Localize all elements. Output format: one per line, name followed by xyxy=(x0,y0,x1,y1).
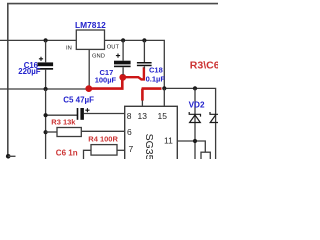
op-amp U? regulator LM7812 box xyxy=(66,20,120,60)
svg-text:R4 100R: R4 100R xyxy=(88,134,118,143)
wire pin15 stub xyxy=(163,88,165,106)
node C16 bottom junction xyxy=(44,87,48,91)
wire ground rail y=89 left part xyxy=(0,88,87,90)
svg-text:SG3525: SG3525 xyxy=(143,134,155,159)
border frame top/left xyxy=(8,4,218,156)
svg-text:OUT: OUT xyxy=(107,45,120,51)
svg-text:0.1µF: 0.1µF xyxy=(146,74,166,83)
capacitor C17 100uF xyxy=(95,40,131,84)
node pin15 junction xyxy=(162,86,166,90)
wire main top rail y=40.4 with right drop xyxy=(0,40,164,88)
svg-text:R3 13k: R3 13k xyxy=(51,118,76,127)
node bottom-left junction xyxy=(6,154,11,159)
svg-text:6: 6 xyxy=(127,127,132,137)
svg-text:C5 47µF: C5 47µF xyxy=(63,95,94,104)
svg-text:13: 13 xyxy=(138,111,148,121)
op-amp U1 SG3525 box xyxy=(125,106,178,172)
resistor R3 13k xyxy=(46,118,125,137)
wire pin 11 to resistor at bottom right xyxy=(177,141,205,152)
wire highlighted segment to pin 13 (red) xyxy=(142,89,162,101)
wire right section of mid rail y=88.4 with right drop xyxy=(164,88,215,112)
svg-text:7: 7 xyxy=(129,144,134,154)
node pin11/VD2 junction xyxy=(193,139,197,143)
node C18 tap xyxy=(142,38,146,42)
svg-text:R3\C6: R3\C6 xyxy=(190,59,218,71)
node R3 tap xyxy=(44,130,48,134)
wire left rail to C5 xyxy=(46,114,77,116)
svg-text:15: 15 xyxy=(158,111,168,121)
capacitor C5 47uF xyxy=(63,95,94,119)
wire LM7812 GND pin down xyxy=(88,49,90,86)
wire C5 to pin 8 xyxy=(84,113,125,115)
svg-text:C6 1n: C6 1n xyxy=(56,148,78,157)
node C16 tap xyxy=(44,38,48,42)
svg-text:VD2: VD2 xyxy=(189,100,205,109)
wire left vertical rail x=45.6 xyxy=(45,89,47,159)
svg-text:220µF: 220µF xyxy=(18,67,41,76)
wire bottom stub xyxy=(8,155,15,157)
node C5 tap xyxy=(44,113,48,117)
svg-text:8: 8 xyxy=(127,111,132,121)
node VD2 junction xyxy=(193,86,197,90)
diode VD2 (zener) xyxy=(189,88,205,159)
svg-text:100µF: 100µF xyxy=(95,76,117,85)
svg-text:IN: IN xyxy=(66,45,72,51)
svg-text:GND: GND xyxy=(92,54,105,60)
wire highlighted net: GND-node to C17/C18 bottoms (red) xyxy=(85,67,143,92)
resistor R? bottom right box xyxy=(201,152,210,161)
capacitor C16 220uF xyxy=(18,40,53,89)
capacitor C18 0.1uF xyxy=(137,40,165,83)
node C17 tap xyxy=(121,38,125,42)
wire pin13 stub xyxy=(141,100,143,106)
resistor R4 100R xyxy=(84,134,125,159)
svg-text:C18: C18 xyxy=(149,65,163,74)
diode VD3 (zener, clipped at right edge) xyxy=(210,112,218,159)
svg-text:LM7812: LM7812 xyxy=(75,20,106,30)
svg-text:11: 11 xyxy=(164,136,173,146)
